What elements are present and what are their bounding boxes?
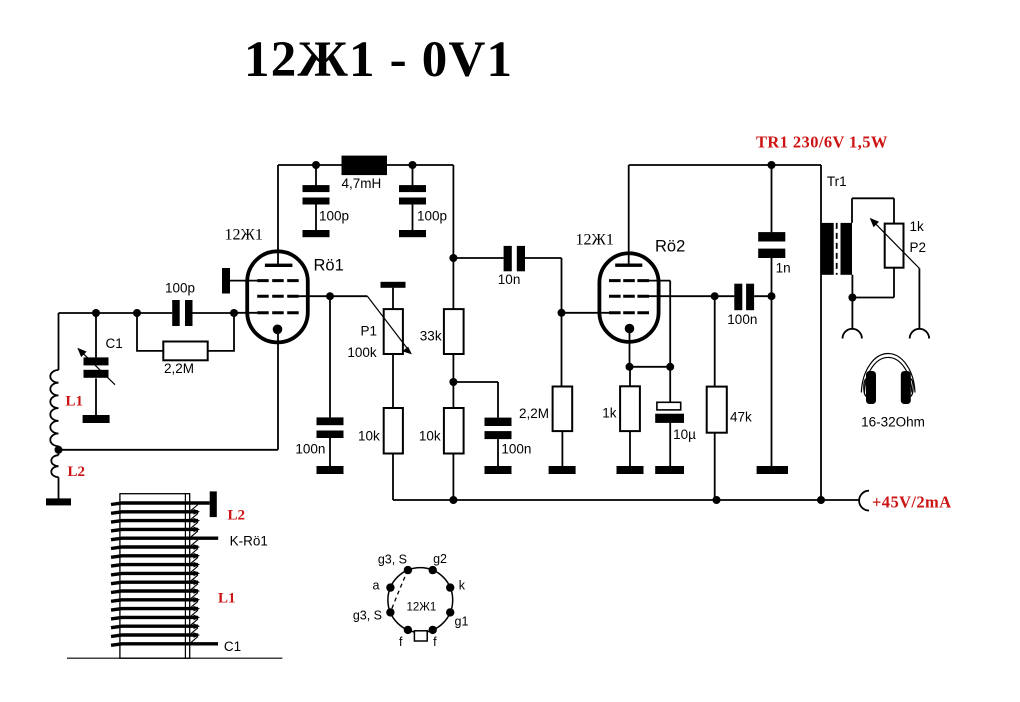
- svg-text:TR1 230/6V 1,5W: TR1 230/6V 1,5W: [756, 133, 888, 152]
- ground bar under 10µ: [655, 466, 684, 474]
- wire 1k to ground: [629, 431, 631, 466]
- Rö1 top-cap bar: [222, 268, 230, 294]
- capacitor 1n: [758, 232, 785, 241]
- potentiometer P1 body: [384, 309, 403, 354]
- wire C1 leads: [95, 313, 97, 415]
- node cathode junction right: [666, 363, 674, 371]
- ground bar under C1: [83, 415, 110, 423]
- svg-text:2,2M: 2,2M: [519, 406, 549, 421]
- svg-text:f: f: [433, 635, 437, 649]
- wire L1 to L2: [58, 446, 60, 455]
- wire 10k right to rail: [452, 454, 454, 501]
- C1 arrow: [81, 351, 115, 385]
- P1 wiper diagonal: [367, 296, 408, 350]
- wire grid into Rö2: [562, 312, 610, 314]
- capacitor 100p right: [399, 185, 426, 192]
- wire input net horizontal: [59, 312, 258, 314]
- svg-text:100n: 100n: [295, 442, 325, 457]
- svg-text:g1: g1: [455, 614, 469, 628]
- Rö1 grid g1 dashes: [257, 311, 299, 314]
- node screen Rö1: [326, 292, 334, 300]
- svg-text:47k: 47k: [730, 410, 752, 425]
- wire antenna column top: [58, 313, 60, 370]
- ground bar under 100n: [317, 466, 344, 474]
- ground bar under L2: [46, 498, 71, 505]
- svg-text:g3, S: g3, S: [378, 553, 407, 567]
- node primary at rail: [817, 496, 825, 504]
- resistor 47k: [707, 387, 727, 433]
- svg-text:100p: 100p: [319, 209, 349, 224]
- svg-text:+45V/2mA: +45V/2mA: [872, 493, 952, 512]
- transformer Tr1 secondary bar: [841, 223, 853, 275]
- transformer Tr1 primary bar: [821, 223, 834, 275]
- Rö1 screen g2 dashes: [257, 295, 299, 298]
- wire Rö1 anode riser: [277, 165, 279, 265]
- wire secondary top to P2: [852, 198, 894, 223]
- svg-text:g3, S: g3, S: [353, 608, 382, 622]
- capacitor C1 variable: [84, 357, 109, 365]
- socket pin g2: [429, 566, 437, 574]
- svg-text:10k: 10k: [419, 429, 441, 444]
- capacitor 10n: [504, 246, 512, 271]
- svg-text:10k: 10k: [358, 429, 380, 444]
- svg-text:1n: 1n: [776, 260, 791, 275]
- ground bar under 1k: [617, 466, 644, 474]
- phone terminal right: [910, 329, 929, 339]
- svg-text:P1: P1: [361, 324, 378, 339]
- wire 10n left lead: [453, 257, 503, 259]
- svg-text:12Ж1: 12Ж1: [407, 602, 437, 614]
- svg-text:1k: 1k: [910, 219, 925, 234]
- svg-text:12Ж1 - 0V1: 12Ж1 - 0V1: [244, 32, 513, 88]
- svg-text:k: k: [459, 578, 466, 592]
- wire cathode return: [59, 333, 279, 450]
- wire node to 100n decoupling: [329, 296, 331, 466]
- wire bottom rail: [393, 499, 859, 501]
- svg-text:K-Rö1: K-Rö1: [230, 534, 268, 549]
- resistor 2,2M grid leak Rö2: [553, 387, 573, 432]
- wire top-cap to g3: [230, 280, 257, 282]
- L2 terminal bar: [210, 491, 217, 517]
- node 10k right at rail: [449, 496, 457, 504]
- svg-text:100p: 100p: [417, 209, 447, 224]
- node 1n top: [768, 161, 776, 169]
- wire node to P1 wiper feed: [330, 295, 367, 297]
- svg-text:12Ж1: 12Ж1: [576, 231, 614, 248]
- coil former rectangle: [120, 494, 190, 659]
- wire 2,2M bypass loop: [137, 313, 234, 351]
- svg-text:10n: 10n: [498, 272, 521, 287]
- wire 100p left leads: [315, 165, 317, 231]
- node Rö2 grid: [558, 309, 566, 317]
- wire 33k to 10k right: [452, 354, 454, 408]
- coil winding end flicks: [194, 509, 201, 638]
- resistor 33k: [444, 309, 464, 354]
- wire 10µ leads: [669, 367, 671, 467]
- svg-text:L2: L2: [68, 464, 86, 480]
- P2 wiper arrow: [873, 221, 920, 269]
- svg-text:100n: 100n: [727, 312, 757, 327]
- node at C1 top: [92, 309, 100, 317]
- socket pin k: [446, 583, 454, 591]
- P1 top bar: [381, 282, 406, 288]
- capacitor 100n mid: [485, 418, 512, 426]
- ground bar under 1n: [757, 466, 788, 474]
- Rö2 grid g3 dashes: [609, 279, 649, 282]
- wire 2,2M to ground: [561, 431, 563, 466]
- svg-text:2,2M: 2,2M: [164, 361, 194, 376]
- node junction right of 4,7mH: [409, 161, 417, 169]
- socket pin f left: [404, 626, 412, 634]
- node 47k at rail: [713, 496, 721, 504]
- socket key square: [414, 631, 427, 641]
- wire 10k left to rail: [392, 454, 394, 501]
- svg-text:P2: P2: [910, 240, 927, 255]
- coil former inner wall: [184, 494, 186, 659]
- phone terminal left: [843, 329, 862, 339]
- svg-text:C1: C1: [224, 639, 241, 654]
- resistor 10k right: [444, 408, 464, 454]
- wire Rö2 screen out: [649, 295, 715, 297]
- ground bar under 100p left: [303, 230, 330, 237]
- Rö2 cathode dot: [625, 324, 635, 334]
- wire 100p right leads: [412, 165, 414, 231]
- svg-text:a: a: [373, 578, 380, 592]
- svg-text:100n: 100n: [501, 442, 531, 457]
- node 10n tap: [449, 254, 457, 262]
- wire P2 bottom loop: [852, 268, 894, 329]
- ground bar under 100p right: [399, 230, 426, 237]
- socket pin g3S left: [386, 608, 394, 616]
- node screen/47k: [711, 292, 719, 300]
- P1 wiper arrowhead: [402, 347, 412, 355]
- Rö2 grid g1 dashes: [609, 311, 649, 314]
- node secondary bottom: [848, 294, 856, 302]
- transformer Tr1 core dashes: [836, 223, 838, 275]
- capacitor 100p left: [303, 185, 330, 192]
- wire Rö2 anode top rail: [629, 165, 821, 500]
- wire 100n output leads: [715, 295, 772, 297]
- wire 1n column: [771, 165, 773, 466]
- coil winding turns: [111, 503, 218, 645]
- ground bar under 2,2M: [549, 466, 576, 474]
- Rö1 cathode dot: [273, 325, 283, 335]
- node 33k/10k junction: [449, 378, 457, 386]
- svg-text:L1: L1: [218, 590, 236, 606]
- capacitor 100n under Rö1: [317, 417, 344, 425]
- node left of 100p coupling: [133, 309, 141, 317]
- tube Rö1 envelope: [247, 251, 308, 342]
- socket pin g3S top: [404, 566, 412, 574]
- wire junction to 100n mid: [453, 382, 498, 466]
- inductor L1: [50, 370, 58, 446]
- svg-text:g2: g2: [433, 552, 447, 566]
- potentiometer P2 body: [885, 224, 904, 268]
- inductor 4,7mH: [342, 156, 388, 176]
- svg-text:12Ж1: 12Ж1: [225, 227, 263, 244]
- Rö2 screen g2 dashes: [609, 295, 649, 298]
- wire top rail left (Rö1 anode to filter): [278, 164, 453, 166]
- tube socket circle: [388, 568, 453, 633]
- wire Rö2 cathode down: [630, 333, 671, 386]
- svg-text:10µ: 10µ: [673, 427, 696, 442]
- svg-text:1k: 1k: [602, 406, 617, 421]
- socket pin a: [386, 583, 394, 591]
- socket pin f right: [429, 626, 437, 634]
- svg-text:Rö2: Rö2: [655, 238, 685, 256]
- capacitor 10µ electrolytic: [657, 402, 681, 410]
- node 100n right: [768, 292, 776, 300]
- wire P2 wiper down: [918, 268, 920, 329]
- svg-text:L2: L2: [228, 508, 246, 524]
- svg-text:16-32Ohm: 16-32Ohm: [861, 414, 925, 429]
- wire right column down from top rail: [452, 165, 454, 309]
- svg-text:Tr1: Tr1: [827, 174, 847, 189]
- headphones icon: [861, 354, 915, 404]
- resistor 2,2M grid leak Rö1: [163, 342, 207, 361]
- capacitor 100n output: [734, 284, 742, 311]
- svg-text:100k: 100k: [347, 345, 377, 360]
- Rö2 anode bar: [615, 264, 642, 267]
- svg-text:f: f: [399, 635, 403, 649]
- wire Rö2 g3 to cathode column: [649, 281, 670, 367]
- capacitor 100p coupling: [172, 300, 180, 326]
- ground bar under 100n mid: [485, 466, 512, 474]
- wire 10n right lead to Rö2 grid: [525, 258, 562, 387]
- coil baseline: [67, 657, 282, 659]
- wire P1 top lead: [392, 288, 394, 309]
- wire 47k column: [714, 296, 716, 500]
- Rö1 grid g3 dashes: [257, 279, 299, 282]
- socket pin g1: [446, 608, 454, 616]
- wire L2 to ground: [58, 477, 60, 499]
- Rö1 anode bar: [265, 264, 293, 267]
- resistor 1k cathode: [620, 386, 640, 431]
- coil winding hooks: [191, 505, 198, 643]
- node junction left of 4,7mH: [312, 161, 320, 169]
- svg-text:33k: 33k: [420, 328, 442, 343]
- svg-text:L1: L1: [66, 394, 84, 410]
- node cathode junction left: [626, 363, 634, 371]
- node L1/L2 tap: [55, 446, 63, 454]
- Rö2 anode riser: [628, 165, 630, 265]
- resistor 10k left: [384, 408, 403, 454]
- svg-text:Rö1: Rö1: [314, 257, 344, 275]
- tube Rö2 envelope: [599, 253, 658, 342]
- svg-text:C1: C1: [106, 336, 123, 351]
- node right of 100p coupling: [230, 309, 238, 317]
- wire P1 to 10k: [392, 354, 394, 408]
- svg-text:100p: 100p: [165, 281, 195, 296]
- svg-text:4,7mH: 4,7mH: [342, 176, 382, 191]
- +45V terminal arc: [859, 491, 869, 511]
- wire screen Rö1 to node: [299, 295, 330, 297]
- socket internal dashed link g3-g3: [390, 570, 408, 612]
- inductor L2: [51, 455, 58, 477]
